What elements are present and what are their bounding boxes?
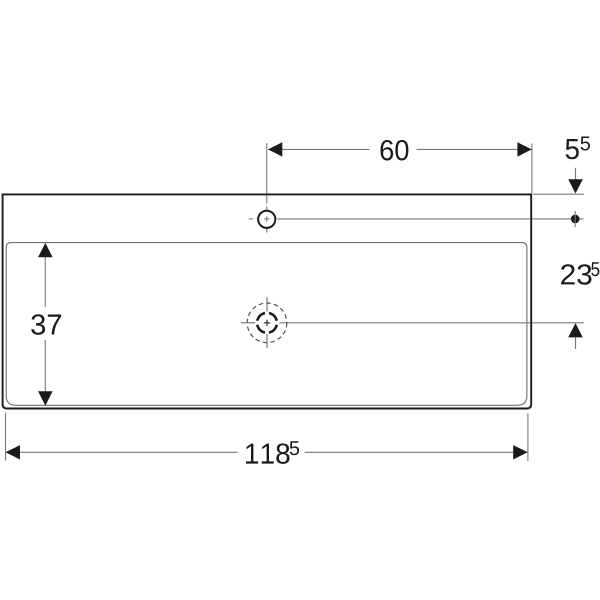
37-dim vertical line [44, 243, 46, 307]
label 118 (main) [246, 443, 290, 464]
23.5-dim tail line [575, 337, 577, 349]
drain center plus [264, 322, 270, 324]
label 5 superscript [581, 137, 590, 151]
arrow right of 60-dim [517, 142, 531, 156]
extension line: right edge extended up for 60-dim [531, 144, 533, 194]
arrow up of 37-dim [38, 243, 53, 257]
label 37 [31, 314, 61, 335]
faucet centerline long horizontal line to right dot [277, 218, 530, 220]
arrow left of 60-dim [268, 142, 282, 156]
arrow up of 23.5-dim [568, 323, 583, 337]
washbasin outer outline (top view, rounded front corners) [3, 194, 532, 408]
drain dashed outer circle [247, 303, 287, 343]
label 60 [381, 140, 409, 161]
faucet centerline horizontal left dashes [249, 218, 253, 220]
arrow left of 118.5-dim [6, 445, 20, 459]
5.5-dim tail line [575, 168, 577, 180]
inner basin bowl rounded rectangle [6, 243, 527, 406]
dimension line 60 [268, 148, 369, 150]
arrow down of 37-dim [38, 391, 53, 405]
extension line: left edge extended down for 118.5-dim [5, 413, 7, 461]
faucet hole circle [258, 211, 275, 228]
faucet center plus dashes inside circle [266, 216, 268, 221]
faucet centerline vertical dashes [266, 207, 268, 213]
drain thick arcs [257, 313, 277, 333]
drain centerline long horizontal line to right arrow [279, 322, 530, 324]
label 5 (main) [566, 139, 579, 159]
label 23 (main) [561, 264, 591, 285]
dot marker at faucet level (5.5 / 23.5 dims) [571, 215, 580, 224]
drain crosshair vertical segments [266, 297, 268, 311]
drain crosshair horizontal left segment [241, 322, 255, 324]
dimension line 118.5 [6, 451, 237, 453]
extension line: vertical through faucet hole up to 60-dim line [266, 143, 268, 193]
extension line: right edge extended down for 118.5-dim [527, 414, 529, 462]
dot vertical tick [574, 211, 576, 227]
arrow down of 5.5-dim [568, 179, 583, 193]
extension line: top edge extended right for 5.5-dim [533, 193, 584, 195]
label 118 superscript 5 [290, 441, 299, 455]
label 23 superscript 5 [591, 262, 599, 276]
arrow right of 118.5-dim [513, 445, 527, 459]
